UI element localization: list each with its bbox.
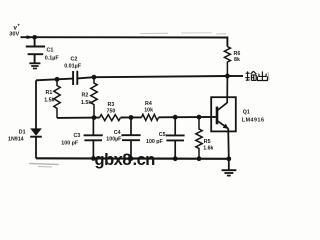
node: R5 bottom (197, 156, 202, 161)
svg-text:LM4916: LM4916 (242, 117, 265, 123)
wire: bottom rail (36, 157, 229, 160)
svg-text:100 pF: 100 pF (146, 139, 164, 145)
svg-text:750: 750 (107, 109, 116, 115)
svg-text:8k: 8k (234, 57, 240, 63)
node: C3 bottom (91, 156, 96, 161)
ground (emitter) (222, 159, 237, 176)
node: C5 junction (173, 115, 178, 120)
svg-text:1.6k: 1.6k (203, 145, 213, 151)
svg-text:R3: R3 (108, 102, 115, 108)
capacitor C5 100pF (166, 117, 185, 159)
svg-text:R5: R5 (204, 139, 211, 145)
svg-text:Q1: Q1 (243, 109, 250, 115)
svg-text:30V: 30V (9, 32, 19, 38)
capacitor C2 (series) (73, 71, 77, 85)
svg-text:1N914: 1N914 (8, 137, 24, 143)
svg-text:100µF: 100µF (106, 137, 122, 143)
output label (Chinese: shu-chu) (245, 71, 256, 80)
svg-text:D1: D1 (19, 130, 26, 136)
svg-text:C3: C3 (74, 133, 81, 139)
resistor R1 1.5k (54, 79, 60, 118)
svg-text:C4: C4 (114, 130, 121, 136)
resistor R3 750 (series) (100, 115, 121, 121)
svg-text:R1: R1 (46, 90, 53, 96)
wire: phase-shift ladder rail (base line) (57, 117, 217, 118)
resistor R4 10k (series) (142, 114, 159, 120)
node: R2/C3 junction (92, 115, 97, 120)
capacitor C1 (26, 37, 45, 63)
resistor R2 1.5k (91, 77, 97, 117)
capacitor C4 100uF (121, 118, 140, 159)
svg-text:C5: C5 (159, 132, 166, 138)
svg-text:0.01µF: 0.01µF (64, 63, 82, 69)
node: output junction (225, 74, 230, 79)
capacitor C3 100pF (84, 118, 103, 159)
wire: left branch vertical (to D1) (35, 80, 37, 128)
node: emitter/ground junction (226, 156, 231, 161)
svg-text:R2: R2 (82, 92, 89, 98)
svg-text:1.5k: 1.5k (81, 100, 91, 106)
node: R2 top (92, 75, 97, 80)
supply label V+ 30V (9, 23, 20, 38)
node: R5 junction (197, 115, 202, 120)
svg-text:C2: C2 (71, 56, 78, 62)
svg-text:R4: R4 (145, 101, 152, 107)
svg-text:0.1µF: 0.1µF (45, 56, 60, 62)
svg-text:1.5k: 1.5k (44, 98, 54, 104)
svg-text:+: + (17, 23, 20, 28)
svg-text:.cn: .cn (133, 151, 156, 169)
scan noise (decorative) (30, 33, 269, 167)
node: C5 bottom (173, 156, 178, 161)
svg-text:gbx8: gbx8 (95, 151, 132, 169)
node: C1 junction on rail (32, 35, 37, 40)
node: R1 top (55, 77, 60, 82)
resistor R6 (224, 47, 230, 76)
wire: top supply rail with arrowhead (21, 37, 228, 46)
wire: node-A rail (left vertical + horizontal through C2 to output) (36, 76, 227, 80)
svg-text:10k: 10k (144, 108, 153, 114)
node: C4 bottom (129, 156, 134, 161)
ground (C1) (29, 63, 40, 68)
transistor Q1 (in box) (211, 76, 236, 159)
resistor R5 1.6k (196, 117, 202, 159)
node: C4 junction (129, 115, 134, 120)
svg-text:100 pF: 100 pF (61, 140, 79, 146)
wire: output stub (227, 75, 243, 77)
diode D1 1N914 (30, 128, 42, 158)
watermark gbx8.cn (95, 151, 156, 169)
svg-text:C1: C1 (47, 48, 54, 54)
